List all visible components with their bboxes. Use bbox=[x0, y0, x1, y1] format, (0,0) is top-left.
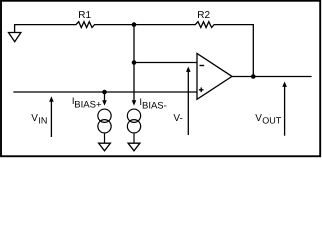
svg-text:BIAS+: BIAS+ bbox=[74, 100, 102, 111]
svg-text:BIAS-: BIAS- bbox=[142, 101, 167, 112]
svg-text:R2: R2 bbox=[197, 10, 210, 21]
svg-text:IN: IN bbox=[38, 115, 47, 125]
svg-text:R1: R1 bbox=[78, 10, 91, 21]
svg-text:OUT: OUT bbox=[262, 116, 282, 126]
svg-text:V: V bbox=[31, 113, 38, 124]
svg-text:V-: V- bbox=[173, 113, 182, 124]
